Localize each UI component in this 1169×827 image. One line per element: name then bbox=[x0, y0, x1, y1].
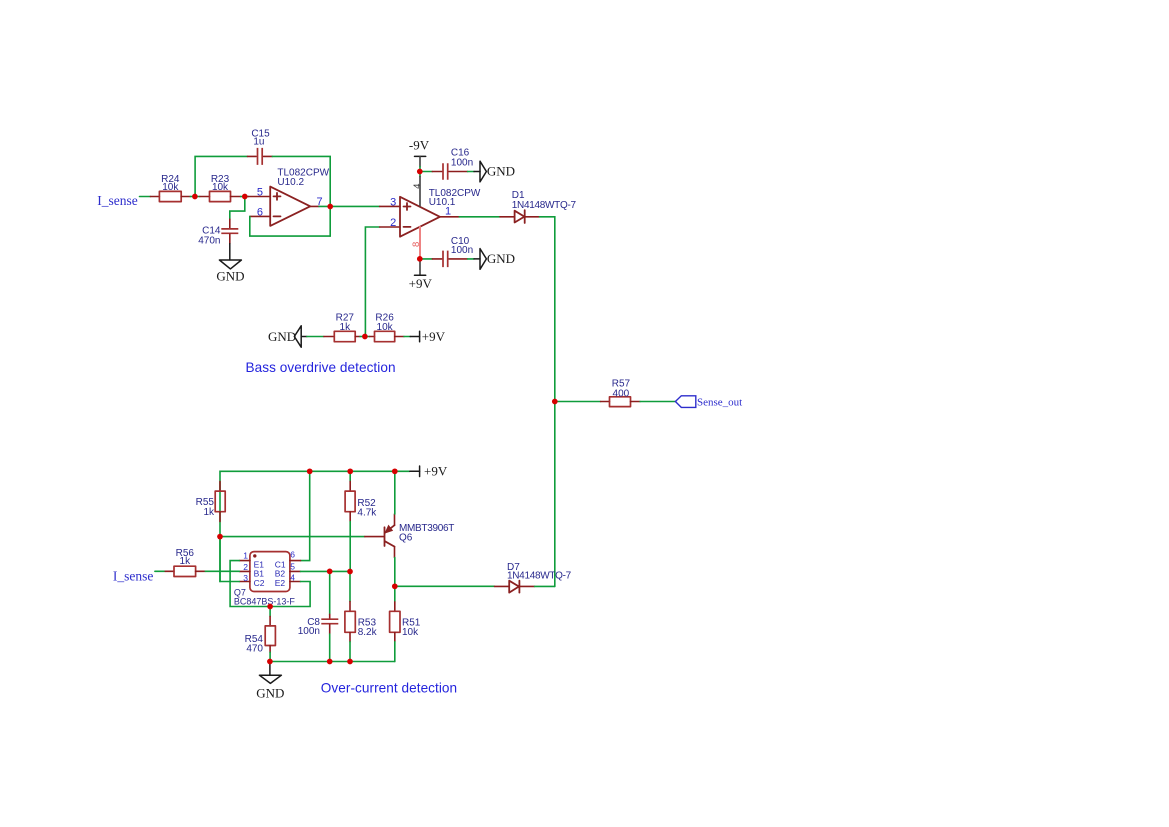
wire node B down to C14 bbox=[230, 197, 245, 220]
wire C1 to rail bbox=[301, 471, 310, 560]
resistor R24 bbox=[159, 191, 181, 201]
junction node A bbox=[192, 194, 198, 200]
resistor R26 bbox=[370, 336, 375, 338]
svg-text:C2: C2 bbox=[254, 578, 265, 588]
pin 4 U10.1 bbox=[419, 167, 421, 177]
resistor R23 bbox=[200, 196, 210, 198]
junction node N (C8 top) bbox=[327, 569, 333, 575]
wire U10.2 output to junction C bbox=[319, 205, 330, 207]
svg-text:U10.2: U10.2 bbox=[277, 177, 304, 188]
svg-text:1k: 1k bbox=[180, 556, 192, 567]
svg-text:100n: 100n bbox=[298, 626, 320, 637]
wire R56 to Q7 pin2 bbox=[205, 570, 239, 572]
wire C16 to GND bbox=[468, 171, 474, 173]
svg-text:8.2k: 8.2k bbox=[358, 627, 378, 638]
capacitor C15 bbox=[248, 155, 257, 157]
svg-text:Over-current detection: Over-current detection bbox=[321, 681, 457, 696]
svg-text:6: 6 bbox=[290, 550, 295, 560]
junction node K (R55/base wire) bbox=[217, 534, 223, 540]
power +9V below U10.1 bbox=[419, 262, 421, 276]
junction node D (-9V rail) bbox=[417, 169, 423, 175]
transistor array Q7 bbox=[250, 552, 290, 592]
junction node J (rail/Q6 emitter) bbox=[392, 468, 398, 474]
svg-text:1: 1 bbox=[243, 551, 248, 561]
resistor R54 bbox=[269, 607, 271, 617]
wire D1 to sense bus bbox=[540, 217, 555, 587]
pin 3 Q7 bbox=[239, 581, 250, 583]
capacitor C8 bbox=[329, 571, 331, 614]
diode D1 bbox=[500, 216, 515, 218]
junction node Q (rail/C8) bbox=[327, 659, 333, 665]
svg-text:U10.1: U10.1 bbox=[429, 197, 456, 208]
svg-text:GND: GND bbox=[268, 329, 296, 344]
resistor R27 bbox=[307, 336, 324, 338]
resistor R53 bbox=[349, 572, 351, 602]
wire C8 to bottom rail bbox=[329, 634, 331, 662]
wire bottom rail bbox=[270, 661, 395, 663]
svg-text:4: 4 bbox=[290, 573, 295, 583]
power +9V right of R26 bbox=[404, 336, 410, 338]
power -9V bbox=[415, 155, 426, 157]
wire R27 to junction F bbox=[360, 336, 370, 338]
wire Q6 collector to D7 bbox=[395, 585, 495, 587]
svg-text:E2: E2 bbox=[275, 578, 286, 588]
junction node B bbox=[242, 194, 248, 200]
ground bottom bbox=[269, 662, 271, 676]
svg-text:BC847BS-13-F: BC847BS-13-F bbox=[234, 597, 296, 607]
resistor R56 bbox=[155, 570, 165, 572]
junction node F bbox=[362, 334, 368, 340]
svg-text:+9V: +9V bbox=[409, 276, 433, 291]
pin 2 Q7 bbox=[239, 570, 250, 572]
wire +9V top rail bbox=[220, 471, 410, 581]
power +9V rail symbol bbox=[410, 470, 420, 472]
junction node L (B2 node) bbox=[347, 569, 353, 575]
svg-text:I_sense: I_sense bbox=[113, 569, 153, 584]
wire U10.1 pin2 from divider bbox=[365, 227, 379, 337]
svg-text:+9V: +9V bbox=[424, 464, 448, 479]
capacitor C16 bbox=[422, 171, 432, 173]
wire R24 to node A bbox=[190, 196, 200, 198]
junction node P (rail/GND) bbox=[267, 659, 273, 665]
op-amp U10.2 bbox=[248, 196, 270, 198]
wire R52 to node L bbox=[349, 522, 351, 572]
svg-text:10k: 10k bbox=[162, 182, 179, 193]
wire Q7 C2 to R55 node bbox=[220, 537, 239, 582]
wire node A up to C15 feedback bbox=[195, 156, 247, 196]
pin 5 Q7 bbox=[290, 570, 301, 572]
svg-text:10k: 10k bbox=[212, 182, 229, 193]
svg-text:-9V: -9V bbox=[409, 137, 430, 152]
resistor R55 bbox=[219, 481, 221, 491]
pin 1 Q7 bbox=[239, 560, 250, 562]
svg-text:Bass overdrive detection: Bass overdrive detection bbox=[246, 360, 396, 375]
pin 4 Q7 bbox=[290, 581, 301, 583]
wire R57 to Sense_out bbox=[640, 401, 675, 403]
ground right of C16 bbox=[474, 171, 480, 173]
junction node H (rail/C1) bbox=[307, 468, 313, 474]
wire R54 to bottom rail bbox=[269, 652, 271, 661]
svg-text:470n: 470n bbox=[198, 235, 220, 246]
svg-text:10k: 10k bbox=[402, 627, 419, 638]
wire C15 to feedback vertical bbox=[272, 156, 330, 236]
svg-text:470: 470 bbox=[246, 643, 263, 654]
svg-text:1k: 1k bbox=[340, 322, 352, 333]
resistor R57 bbox=[555, 401, 601, 403]
diode D7 bbox=[495, 585, 510, 587]
svg-text:+9V: +9V bbox=[422, 329, 446, 344]
svg-text:100n: 100n bbox=[451, 245, 473, 256]
svg-text:1k: 1k bbox=[203, 507, 215, 518]
wire Q6 emitter to rail bbox=[394, 471, 396, 514]
wire Q6 collector down bbox=[394, 558, 396, 587]
svg-text:8: 8 bbox=[411, 242, 422, 247]
svg-text:10k: 10k bbox=[377, 322, 394, 333]
wire U10.2 feedback wrap pin6 bbox=[250, 216, 330, 236]
svg-text:3: 3 bbox=[243, 573, 248, 583]
junction node R (rail/R53) bbox=[347, 659, 353, 665]
wire Q7 emitters loop E1-E2 bbox=[230, 561, 310, 607]
resistor R52 bbox=[349, 471, 351, 481]
pin 6 Q7 bbox=[290, 560, 301, 562]
svg-text:5: 5 bbox=[290, 562, 295, 572]
svg-text:GND: GND bbox=[216, 269, 244, 284]
capacitor C10 bbox=[422, 258, 432, 260]
svg-text:1N4148WTQ-7: 1N4148WTQ-7 bbox=[507, 570, 572, 581]
wire node C to U10.1 pin3 bbox=[330, 205, 380, 207]
svg-text:GND: GND bbox=[256, 686, 284, 701]
resistor R51 bbox=[394, 586, 396, 602]
junction node C bbox=[327, 204, 333, 210]
ground right of C10 bbox=[474, 258, 480, 260]
svg-text:GND: GND bbox=[487, 164, 515, 179]
svg-text:3: 3 bbox=[390, 196, 396, 208]
ground below C14 bbox=[229, 244, 231, 260]
wire U10.1 output bbox=[440, 216, 459, 218]
transistor Q6 bbox=[384, 527, 386, 546]
wire C10 to GND bbox=[468, 258, 474, 260]
svg-text:5: 5 bbox=[257, 186, 263, 198]
wire R23 to node B bbox=[241, 196, 249, 198]
svg-text:1u: 1u bbox=[253, 137, 264, 148]
wire D7 to sense bus bbox=[535, 585, 555, 587]
svg-text:400: 400 bbox=[613, 388, 630, 399]
svg-text:6: 6 bbox=[257, 206, 263, 218]
svg-text:2: 2 bbox=[243, 562, 248, 572]
junction node E (+9V rail) bbox=[417, 256, 423, 262]
svg-text:1N4148WTQ-7: 1N4148WTQ-7 bbox=[512, 200, 577, 211]
junction node O (Q6 collector/out) bbox=[392, 583, 398, 589]
svg-text:100n: 100n bbox=[451, 157, 473, 168]
wire R53 to bottom rail bbox=[349, 642, 351, 662]
hierarchical label Sense_out bbox=[675, 396, 695, 408]
wire I_sense to R24 bbox=[140, 196, 151, 198]
wire base of Q6 bbox=[220, 536, 365, 538]
wire R51 to bottom rail bbox=[394, 642, 396, 662]
wire Q7 pin5 to node L bbox=[301, 570, 351, 572]
svg-text:4: 4 bbox=[412, 184, 423, 189]
pin 8 U10.1 bbox=[419, 227, 421, 257]
junction node I (rail/R52) bbox=[347, 468, 353, 474]
svg-text:GND: GND bbox=[487, 251, 515, 266]
op-amp U10.1 bbox=[400, 197, 440, 237]
svg-text:Sense_out: Sense_out bbox=[697, 397, 742, 409]
svg-text:Q6: Q6 bbox=[399, 532, 413, 543]
svg-text:I_sense: I_sense bbox=[97, 193, 138, 208]
junction node M (R54 top) bbox=[267, 604, 273, 610]
svg-text:1: 1 bbox=[445, 206, 451, 218]
capacitor C14 bbox=[229, 219, 231, 228]
svg-text:4.7k: 4.7k bbox=[357, 508, 377, 519]
junction node G (sense bus / R57) bbox=[552, 399, 558, 405]
